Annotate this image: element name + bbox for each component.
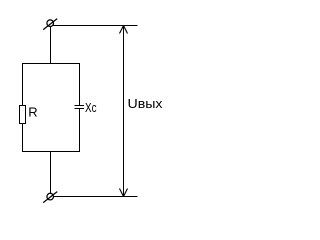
svg-text:R: R [28, 104, 37, 119]
svg-text:Uвых: Uвых [128, 96, 164, 111]
svg-text:Xc: Xc [85, 100, 97, 115]
